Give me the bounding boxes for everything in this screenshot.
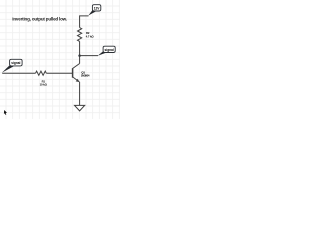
wire from input flag to R1 left xyxy=(2,72,35,74)
ground xyxy=(75,105,85,111)
net flag 12V xyxy=(88,5,101,16)
net flag signal (input) xyxy=(2,59,22,72)
svg-text:4.7 kΩ: 4.7 kΩ xyxy=(86,35,95,39)
wire from R1 right to Q1 base xyxy=(46,72,72,74)
svg-text:signal: signal xyxy=(105,48,114,52)
junction node dot xyxy=(78,54,81,57)
svg-text:signal: signal xyxy=(11,61,20,65)
mouse cursor xyxy=(4,110,7,115)
wire from junction to output signal flag xyxy=(80,55,98,57)
svg-text:Inverting, output pulled low.: Inverting, output pulled low. xyxy=(12,16,67,21)
net flag signal (output) xyxy=(98,46,116,56)
svg-text:2N3904: 2N3904 xyxy=(81,74,90,78)
svg-text:10 kΩ: 10 kΩ xyxy=(40,82,48,86)
svg-text:12V: 12V xyxy=(94,6,101,10)
wire from R2 bottom through junction to Q1 collector xyxy=(79,41,81,63)
resistor R1 xyxy=(36,71,47,75)
wire from Q1 emitter to ground xyxy=(79,82,81,106)
wire from 12V flag to R2 top xyxy=(80,16,89,28)
transistor Q1 (NPN 2N3904) xyxy=(73,64,80,83)
resistor R2 xyxy=(78,28,82,42)
